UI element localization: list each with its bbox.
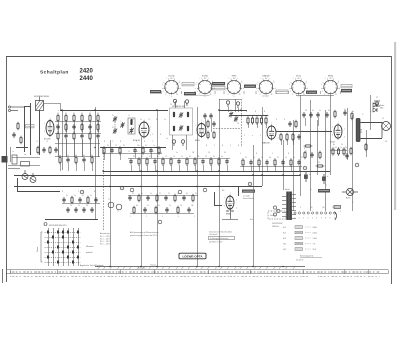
- wire above keyboard: [45, 219, 98, 221]
- svg-text:1M: 1M: [191, 205, 194, 207]
- svg-text:3: 3: [266, 136, 267, 138]
- capacitor C43: [80, 133, 83, 139]
- svg-text:3k: 3k: [66, 195, 68, 197]
- svg-text:1: 1: [338, 122, 339, 124]
- junction: [261, 174, 262, 175]
- resistor R201: [65, 123, 67, 132]
- svg-text:1: 1: [236, 77, 237, 79]
- capacitor C204: [88, 124, 91, 130]
- capacitor C93: [82, 157, 85, 163]
- matrix row 5: [45, 252, 81, 254]
- junction: [196, 266, 197, 267]
- transformer secondary tap: [292, 206, 296, 208]
- svg-text:8k: 8k: [141, 156, 143, 158]
- svg-text:1n: 1n: [181, 156, 183, 158]
- junction: [156, 170, 157, 171]
- electrolytic C51 plus: [322, 174, 329, 184]
- svg-text:3: 3: [162, 216, 163, 218]
- wire stub: [299, 166, 301, 171]
- svg-text:2n: 2n: [312, 110, 314, 112]
- svg-text:2n: 2n: [166, 138, 168, 140]
- svg-text:T2: T2: [117, 211, 119, 213]
- svg-text:R: R: [120, 141, 122, 143]
- svg-text:0,1: 0,1: [107, 145, 109, 147]
- svg-text:3k: 3k: [195, 193, 197, 195]
- svg-text:EL84: EL84: [330, 142, 336, 144]
- svg-text:70: 70: [128, 151, 130, 153]
- svg-text:50: 50: [149, 156, 151, 158]
- svg-text:2440: 2440: [80, 76, 94, 82]
- svg-text:25: 25: [82, 195, 84, 197]
- svg-text:Ra: Ra: [352, 111, 354, 113]
- resistor R40: [57, 132, 59, 141]
- capacitor C127: [297, 160, 300, 166]
- diode D1: [373, 103, 377, 107]
- svg-text:L3: L3: [46, 141, 48, 143]
- wire stub: [92, 163, 94, 171]
- wire stub: [120, 153, 122, 160]
- variable capacitor C3b: [234, 116, 238, 122]
- matrix contact: [57, 261, 59, 264]
- capacitor C121: [249, 160, 252, 166]
- wire stub: [151, 153, 153, 158]
- svg-text:5k: 5k: [145, 145, 147, 147]
- mains plug: [334, 212, 337, 220]
- bus bottom: [95, 266, 305, 268]
- antenna top link: [24, 106, 30, 108]
- matrix contact: [57, 246, 59, 249]
- socket name box: [212, 82, 225, 85]
- resistor R61: [286, 133, 288, 142]
- svg-text:4: 4: [210, 94, 211, 96]
- svg-text:3: 3: [82, 192, 83, 194]
- svg-text:1k: 1k: [57, 113, 59, 115]
- transformer secondary tap: [292, 214, 296, 216]
- svg-text:Si 1: Si 1: [283, 227, 286, 229]
- oscillator coil pack: [128, 118, 135, 134]
- trimmer osc: [129, 128, 133, 134]
- terminal contact: [320, 212, 322, 214]
- dashed vertical switch: [103, 150, 105, 230]
- wire Q drop: [17, 178, 19, 191]
- svg-text:6: 6: [316, 218, 317, 220]
- socket name box: [182, 83, 194, 86]
- svg-text:2n: 2n: [70, 205, 72, 207]
- svg-text:n: n: [252, 135, 253, 137]
- test point under ZF1 a: [172, 140, 175, 146]
- tuning gang link: [114, 122, 116, 128]
- svg-text:7: 7: [293, 78, 294, 80]
- junction: [282, 266, 283, 267]
- svg-text:2k: 2k: [160, 152, 162, 154]
- svg-text:D: D: [276, 119, 278, 121]
- svg-text:1: 1: [180, 88, 181, 90]
- wire left mid: [16, 147, 28, 149]
- svg-text:25: 25: [97, 113, 99, 115]
- circled test point 7: [355, 163, 359, 167]
- fuse F1: [334, 206, 341, 209]
- matrix contact: [47, 256, 49, 259]
- resistor R fm2: [20, 136, 22, 145]
- wire link: [240, 166, 302, 168]
- EM84 bottom link: [222, 219, 238, 221]
- svg-text:7: 7: [229, 78, 230, 80]
- strip divider: [368, 270, 370, 274]
- capacitor C152: [146, 195, 149, 201]
- wire: [219, 99, 221, 266]
- wire Q area: [17, 191, 60, 193]
- strip divider: [250, 270, 252, 274]
- wire: [186, 135, 188, 150]
- transistor Q4: [116, 204, 122, 210]
- svg-text:4n: 4n: [293, 157, 295, 159]
- svg-text:Netz: Netz: [250, 218, 253, 221]
- wire stub: [275, 166, 277, 171]
- svg-text:5k: 5k: [158, 205, 160, 207]
- svg-text:1n: 1n: [12, 151, 14, 153]
- svg-text:0,5 A: 0,5 A: [313, 232, 318, 235]
- resistor R205: [97, 123, 99, 132]
- svg-text:1k: 1k: [285, 157, 287, 159]
- resistor R31: [351, 112, 353, 121]
- trimmer C-IF1: [179, 112, 183, 118]
- capacitor C31: [309, 112, 312, 118]
- svg-text:1,0 A: 1,0 A: [313, 237, 318, 240]
- wire link: [128, 158, 230, 160]
- terminal contact: [312, 212, 314, 214]
- wire link: [12, 157, 40, 159]
- svg-text:1n: 1n: [153, 145, 155, 147]
- capacitor C21: [209, 113, 212, 119]
- wire stub left: [66, 139, 68, 157]
- antenna input jack: [8, 106, 24, 112]
- resistor R203: [81, 123, 83, 132]
- svg-text:FM TA KW MW LW U: FM TA KW MW LW U: [49, 224, 68, 227]
- svg-text:T1: T1: [108, 199, 110, 201]
- legend symbol Si 3: [295, 237, 303, 240]
- matrix contact: [47, 241, 49, 244]
- matrix column 4: [63, 228, 65, 266]
- wire stub: [104, 153, 106, 160]
- capacitor C tr1: [345, 153, 348, 159]
- svg-text:C: C: [240, 153, 242, 155]
- svg-text:R: R: [238, 145, 240, 147]
- strip text row 1: [10, 271, 379, 273]
- terminal contact: [325, 212, 327, 214]
- matrix row 3: [45, 242, 81, 244]
- svg-text:2: 2: [44, 123, 45, 125]
- wire stub: [135, 153, 137, 158]
- socket name box: [184, 92, 196, 95]
- svg-text:R: R: [256, 153, 258, 155]
- wire stub: [84, 163, 86, 171]
- capacitor C134: [94, 197, 97, 203]
- wire stub: [266, 123, 268, 128]
- resistor R112: [146, 157, 148, 166]
- svg-text:5: 5: [344, 129, 345, 131]
- resistor R118: [194, 157, 196, 166]
- svg-text:9k: 9k: [213, 156, 215, 158]
- svg-text:Tr: Tr: [362, 113, 364, 116]
- transformer primary tap: [282, 212, 286, 214]
- svg-text:1: 1: [226, 91, 227, 93]
- matrix contact: [62, 231, 64, 234]
- socket name box: [276, 90, 288, 93]
- decoder dashed box: [268, 211, 286, 219]
- svg-text:4Ω: 4Ω: [385, 141, 388, 143]
- wire: [141, 137, 143, 266]
- strip divider: [208, 270, 210, 274]
- svg-text:8n: 8n: [267, 115, 269, 117]
- diode D2: [373, 108, 377, 112]
- svg-text:1n: 1n: [177, 193, 179, 195]
- capacitor C45: [96, 133, 99, 139]
- matrix contact: [72, 241, 74, 244]
- resistor R70: [304, 151, 306, 160]
- tube socket view EM84: [321, 78, 340, 97]
- svg-text:R: R: [222, 145, 224, 147]
- svg-text:+: +: [327, 175, 329, 178]
- terminal contact: [334, 212, 336, 214]
- terminal contact: [329, 212, 331, 214]
- svg-text:1: 1: [163, 91, 164, 93]
- svg-text:10n: 10n: [137, 145, 140, 147]
- svg-text:2n: 2n: [169, 205, 171, 207]
- transistor Q1 leads: [23, 170, 28, 178]
- svg-text:4: 4: [257, 84, 258, 86]
- matrix contact: [72, 251, 74, 254]
- svg-text:12: 12: [147, 205, 149, 207]
- transformer primary tap: [282, 204, 286, 206]
- matrix contact: [67, 256, 69, 259]
- svg-text:Gl 2: Gl 2: [283, 249, 286, 251]
- border left: [6, 56, 8, 282]
- junction: [94, 147, 95, 148]
- rail mid left: [100, 147, 166, 149]
- svg-text:LOEWE·OPTA: LOEWE·OPTA: [182, 254, 203, 258]
- IF coil L2: [187, 112, 189, 118]
- scan mark bottom left: [2, 269, 4, 283]
- capacitor C41: [64, 133, 67, 139]
- wire stub: [248, 123, 250, 128]
- svg-text:R: R: [160, 134, 162, 136]
- antenna wire down: [39, 111, 41, 156]
- wire left low b: [8, 168, 20, 170]
- electrolytic C50 plus: [304, 172, 311, 182]
- junction: [102, 170, 103, 171]
- svg-text:4: 4: [178, 216, 179, 218]
- svg-text:5: 5: [150, 127, 151, 129]
- tube socket view EF89: [224, 78, 243, 97]
- transformer secondary tap: [292, 218, 296, 220]
- capacitor C163: [165, 207, 168, 213]
- svg-text:C1: C1: [112, 115, 114, 117]
- selector wire: [276, 209, 279, 213]
- wire: [370, 95, 372, 130]
- svg-text:25: 25: [159, 193, 161, 195]
- svg-text:4: 4: [344, 137, 345, 139]
- svg-text:Ausg.: Ausg.: [360, 128, 363, 133]
- svg-text:6k: 6k: [86, 205, 88, 207]
- selenium rectifier: [342, 188, 358, 195]
- triple diode triode V4 EABC80: [267, 125, 276, 141]
- tube socket view EL84: [289, 78, 308, 97]
- svg-text:R: R: [255, 111, 257, 113]
- resistor R tr1: [350, 147, 352, 156]
- svg-text:30: 30: [328, 110, 330, 112]
- svg-text:k: k: [244, 135, 245, 137]
- resistor R62: [292, 133, 294, 142]
- resistor R155: [174, 194, 176, 203]
- ferrite antenna coil: [36, 97, 44, 111]
- svg-text:7 V: 7 V: [313, 244, 316, 246]
- svg-text:1n: 1n: [164, 119, 166, 121]
- svg-text:2: 2: [224, 198, 225, 200]
- svg-text:4: 4: [321, 84, 322, 86]
- svg-text:150: 150: [322, 207, 325, 209]
- rail IF input: [219, 110, 247, 112]
- antenna link wire: [44, 103, 61, 105]
- wire: [310, 100, 312, 211]
- svg-text:7: 7: [261, 78, 262, 80]
- wire: [172, 135, 174, 150]
- resistor R22: [256, 116, 258, 125]
- wire: [262, 107, 264, 186]
- svg-text:2: 2: [332, 127, 333, 129]
- svg-text:Mitnahme: Mitnahme: [86, 245, 93, 248]
- junction: [140, 186, 141, 187]
- svg-text:P2: P2: [318, 162, 320, 164]
- svg-text:12: 12: [261, 157, 263, 159]
- wire stub: [227, 165, 229, 171]
- resistor R v4a: [207, 120, 209, 129]
- wire stub: [259, 166, 261, 171]
- capacitor C o1: [288, 121, 291, 127]
- svg-text:15: 15: [78, 205, 80, 207]
- svg-text:R: R: [288, 153, 290, 155]
- svg-text:gedrückt: gedrückt: [86, 251, 93, 254]
- svg-text:R: R: [104, 141, 106, 143]
- svg-text:R: R: [304, 148, 306, 150]
- capacitor C161: [143, 207, 146, 213]
- potentiometer tone: [316, 165, 325, 167]
- svg-text:220: 220: [332, 207, 335, 209]
- junction: [299, 174, 300, 175]
- terminal contact: [307, 212, 309, 214]
- wire: [228, 107, 230, 112]
- terminal contact: [298, 212, 300, 214]
- svg-text:EABC80: EABC80: [262, 75, 269, 78]
- matrix row 4: [45, 247, 81, 249]
- svg-text:C: C: [112, 141, 114, 143]
- capacitor C fm4: [42, 147, 45, 153]
- svg-text:am: am: [24, 154, 27, 156]
- wire stub: [98, 121, 100, 133]
- svg-text:5k: 5k: [253, 157, 255, 159]
- wire stub: [291, 166, 293, 171]
- svg-text:15: 15: [205, 156, 207, 158]
- svg-text:1k: 1k: [254, 115, 256, 117]
- rail grid row: [230, 115, 268, 117]
- capacitor C71: [310, 152, 313, 158]
- svg-text:4: 4: [225, 84, 226, 86]
- svg-text:15: 15: [152, 151, 154, 153]
- resistor R60: [280, 133, 282, 142]
- matrix contact: [77, 256, 79, 259]
- test point 3: [226, 101, 229, 107]
- svg-text:1: 1: [300, 77, 301, 79]
- matrix contact: [77, 246, 79, 249]
- svg-text:2: 2: [146, 216, 147, 218]
- resistor R23: [260, 116, 262, 125]
- junction: [252, 174, 253, 175]
- svg-text:3: 3: [44, 131, 45, 133]
- resistor R117: [186, 157, 188, 166]
- tube socket view EABC80: [256, 78, 275, 97]
- wire stub left: [82, 139, 84, 157]
- capacitor C81: [110, 148, 113, 154]
- svg-text:Bemerkung:: Bemerkung:: [100, 233, 110, 235]
- svg-text:30: 30: [245, 157, 247, 159]
- svg-text:D1: D1: [376, 97, 378, 99]
- wire link: [55, 121, 101, 123]
- voltage selector plug C: [273, 213, 276, 216]
- junction: [218, 186, 219, 187]
- transformer secondary tap: [292, 198, 296, 200]
- svg-text:EABC80: EABC80: [262, 142, 271, 145]
- svg-text:Schaltplan: Schaltplan: [40, 70, 69, 76]
- resistor R fm5: [49, 146, 51, 155]
- resistor R160: [133, 206, 135, 215]
- svg-text:19 V: 19 V: [313, 249, 317, 251]
- transistor Q3: [108, 202, 114, 208]
- socket name box: [244, 85, 256, 88]
- junction: [252, 266, 253, 267]
- test point 1: [173, 99, 176, 105]
- resistor R fm1: [17, 122, 19, 131]
- output pentode V5 EL84: [334, 123, 342, 139]
- resistor R10: [57, 114, 59, 123]
- wire: [325, 110, 327, 211]
- wire: [238, 108, 240, 112]
- svg-text:Elko: Elko: [380, 108, 383, 110]
- junction: [240, 109, 242, 111]
- tube socket view ECH81: [195, 78, 214, 97]
- tube pin number labels: [44, 118, 345, 210]
- IF coil L4: [187, 126, 189, 132]
- resistor R120: [242, 158, 244, 167]
- svg-text:Alle Spannungen mit Röhrenvolt: Alle Spannungen mit Röhrenvoltmeter: [130, 231, 159, 234]
- resistor R51: [213, 131, 215, 140]
- svg-text:8k: 8k: [224, 152, 226, 154]
- svg-text:7: 7: [232, 95, 233, 97]
- resistor R24: [265, 116, 267, 125]
- wire stub: [283, 166, 285, 171]
- svg-text:k: k: [260, 135, 261, 137]
- wire link: [130, 213, 194, 215]
- svg-text:ECC85: ECC85: [44, 139, 51, 141]
- svg-text:C: C: [272, 153, 274, 155]
- wire: [317, 120, 319, 175]
- svg-text:bei 220 V~: bei 220 V~: [296, 260, 304, 262]
- wire: [157, 110, 159, 266]
- resistor R13: [81, 114, 83, 123]
- capacitor C143: [90, 207, 93, 213]
- resistor R133: [87, 196, 89, 205]
- tube socket view ECC85: [162, 78, 181, 97]
- svg-text:Rö 1 ... 220 V: Rö 1 ... 220 V: [100, 244, 111, 246]
- svg-text:a: a: [58, 110, 59, 112]
